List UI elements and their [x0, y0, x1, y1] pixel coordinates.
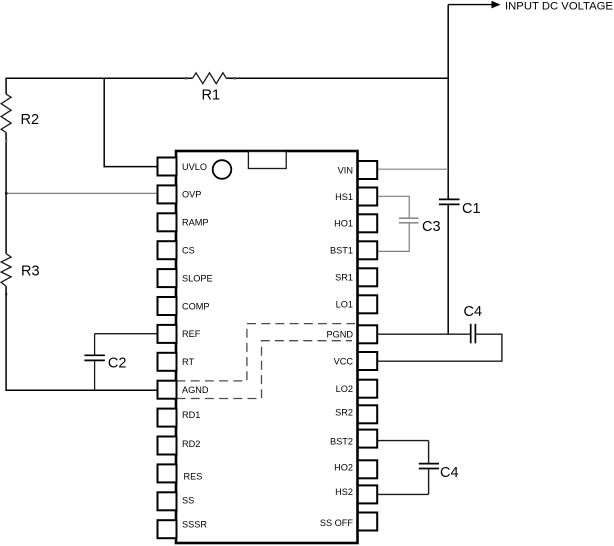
pin LO2 — [336, 380, 378, 398]
wire HS1 — [377, 195, 409, 197]
svg-text:C1: C1 — [462, 201, 481, 217]
pin AGND — [158, 381, 209, 399]
svg-text:RT: RT — [182, 357, 194, 367]
pin OVP — [158, 185, 202, 203]
svg-text:HO2: HO2 — [334, 462, 353, 472]
pin HS1 — [335, 188, 377, 206]
svg-text:AGND: AGND — [182, 385, 209, 395]
pin-1 indicator circle — [213, 160, 232, 179]
svg-text:HS1: HS1 — [335, 192, 353, 202]
pin HO1 — [334, 214, 377, 232]
capacitor C3 — [399, 196, 441, 252]
junction dot R1 right — [233, 77, 236, 80]
capacitor C4 top — [464, 304, 483, 343]
wire input rail vertical lower — [447, 205, 449, 334]
pin LO1 — [336, 295, 378, 313]
svg-text:VIN: VIN — [338, 165, 353, 175]
svg-text:SLOPE: SLOPE — [182, 273, 213, 283]
pin UVLO — [158, 158, 208, 176]
wire top horizontal R1 net right segment — [226, 77, 448, 79]
wire VCC return — [377, 334, 502, 361]
wire input rail vertical upper — [447, 5, 449, 199]
svg-text:OVP: OVP — [182, 190, 201, 200]
svg-text:BST2: BST2 — [330, 436, 353, 446]
IC top tab — [248, 152, 286, 169]
dashed net AGND-PGND lower — [177, 341, 353, 399]
capacitor C4 bottom — [419, 441, 459, 495]
resistor R3 — [1, 254, 39, 287]
wire left rail upper — [5, 78, 7, 95]
svg-text:HS2: HS2 — [335, 487, 353, 497]
pin BST1 — [330, 241, 377, 259]
svg-text:SS: SS — [182, 496, 194, 506]
svg-text:SSSR: SSSR — [182, 520, 207, 530]
pin HO2 — [334, 460, 377, 478]
svg-text:RD1: RD1 — [182, 410, 200, 420]
svg-text:R3: R3 — [21, 264, 40, 280]
wire PGND — [377, 333, 470, 335]
capacitor C2 — [84, 334, 126, 391]
svg-text:VCC: VCC — [334, 356, 354, 366]
svg-text:RAMP: RAMP — [182, 218, 209, 228]
wire top horizontal R1 net left segment — [6, 77, 193, 79]
svg-text:REF: REF — [182, 329, 201, 339]
junction dot below R2 — [5, 140, 7, 142]
svg-text:INPUT DC VOLTAGE: INPUT DC VOLTAGE — [505, 1, 613, 13]
svg-text:RD2: RD2 — [182, 439, 200, 449]
junction dot OVP-rail — [5, 192, 8, 195]
svg-text:SR1: SR1 — [335, 273, 353, 283]
input dc voltage arrow — [448, 1, 501, 9]
svg-text:BST1: BST1 — [330, 246, 353, 256]
wire UVLO drop horizontal — [104, 166, 158, 168]
pin PGND — [326, 325, 377, 343]
svg-text:COMP: COMP — [182, 301, 210, 311]
pin SS — [158, 492, 195, 510]
IC U1 body — [176, 151, 358, 543]
pin SLOPE — [158, 269, 213, 287]
wire OVP — [6, 192, 158, 194]
pin RD2 — [158, 437, 201, 455]
wire AGND horizontal — [5, 389, 157, 391]
svg-text:R2: R2 — [21, 112, 40, 128]
junction dot below R3 — [5, 293, 7, 295]
svg-text:C4: C4 — [440, 465, 459, 481]
dashed net AGND-PGND upper — [177, 324, 356, 381]
pin HS2 — [335, 485, 377, 503]
pin SSSR — [158, 520, 208, 539]
svg-text:CS: CS — [182, 246, 195, 256]
resistor R2 — [1, 94, 39, 132]
svg-text:C4: C4 — [464, 304, 483, 320]
svg-text:LO2: LO2 — [336, 384, 353, 394]
pin SS OFF — [320, 513, 377, 531]
svg-text:UVLO: UVLO — [182, 162, 207, 172]
pin RAMP — [158, 213, 209, 231]
pin SR2 — [335, 405, 377, 423]
svg-text:SS OFF: SS OFF — [320, 518, 354, 528]
wire HS2 — [377, 493, 428, 495]
pin VIN — [338, 161, 378, 179]
pin CS — [158, 241, 195, 259]
svg-text:PGND: PGND — [326, 330, 353, 340]
svg-text:HO1: HO1 — [334, 219, 353, 229]
svg-text:C3: C3 — [422, 219, 441, 235]
pin COMP — [158, 297, 210, 315]
pin REF — [158, 325, 201, 343]
wire left rail middle — [5, 133, 7, 254]
pin BST2 — [330, 430, 377, 448]
svg-text:RES: RES — [184, 472, 203, 482]
pin SR1 — [335, 268, 377, 286]
svg-text:R1: R1 — [202, 88, 221, 104]
pin RD1 — [158, 409, 201, 427]
wire VIN — [377, 168, 448, 170]
pin VCC — [334, 352, 378, 370]
svg-text:C2: C2 — [108, 356, 127, 372]
wire UVLO drop vertical — [103, 78, 105, 168]
wire REF — [95, 333, 158, 335]
wire BST1 — [377, 250, 409, 252]
svg-text:LO1: LO1 — [336, 300, 353, 310]
capacitor C1 — [439, 199, 481, 217]
svg-text:SR2: SR2 — [335, 408, 353, 418]
wire BST2 — [377, 440, 428, 442]
junction dot R1 left — [185, 77, 188, 80]
pin RES — [158, 464, 203, 482]
wire left rail lower — [5, 286, 7, 391]
pin RT — [158, 353, 195, 371]
resistor R1 — [193, 73, 227, 104]
